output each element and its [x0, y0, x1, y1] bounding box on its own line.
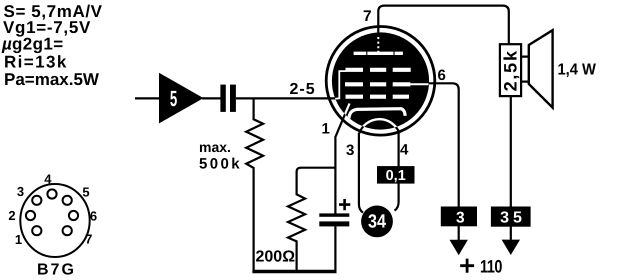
svg-text:3: 3 — [346, 142, 354, 159]
svg-text:4: 4 — [44, 171, 52, 186]
svg-text:35: 35 — [500, 210, 526, 227]
svg-text:4: 4 — [400, 142, 409, 159]
svg-text:1,4 W: 1,4 W — [558, 62, 597, 79]
svg-text:3: 3 — [456, 210, 465, 227]
svg-text:Pa=max.5W: Pa=max.5W — [4, 70, 100, 89]
svg-text:5: 5 — [82, 185, 89, 200]
svg-text:6: 6 — [438, 67, 446, 84]
svg-text:B7G: B7G — [37, 261, 76, 278]
svg-text:g2g1=: g2g1= — [12, 35, 64, 54]
svg-text:2-5: 2-5 — [290, 81, 316, 98]
svg-text:1: 1 — [15, 232, 22, 247]
svg-text:5: 5 — [170, 86, 177, 111]
svg-text:34: 34 — [368, 212, 386, 233]
svg-text:max.: max. — [199, 139, 231, 155]
svg-text:110: 110 — [480, 256, 502, 276]
svg-text:500k: 500k — [199, 155, 242, 172]
svg-text:2,5k: 2,5k — [500, 49, 520, 91]
svg-text:0,1: 0,1 — [386, 168, 406, 184]
svg-text:1: 1 — [322, 121, 330, 138]
svg-text:µ: µ — [1, 35, 12, 54]
svg-text:7: 7 — [363, 8, 372, 25]
svg-text:Ri=13k: Ri=13k — [4, 53, 68, 72]
svg-text:200Ω: 200Ω — [256, 248, 296, 265]
svg-text:2: 2 — [8, 208, 15, 223]
svg-text:3: 3 — [17, 184, 24, 199]
svg-text:6: 6 — [90, 209, 97, 224]
svg-text:7: 7 — [85, 231, 92, 246]
